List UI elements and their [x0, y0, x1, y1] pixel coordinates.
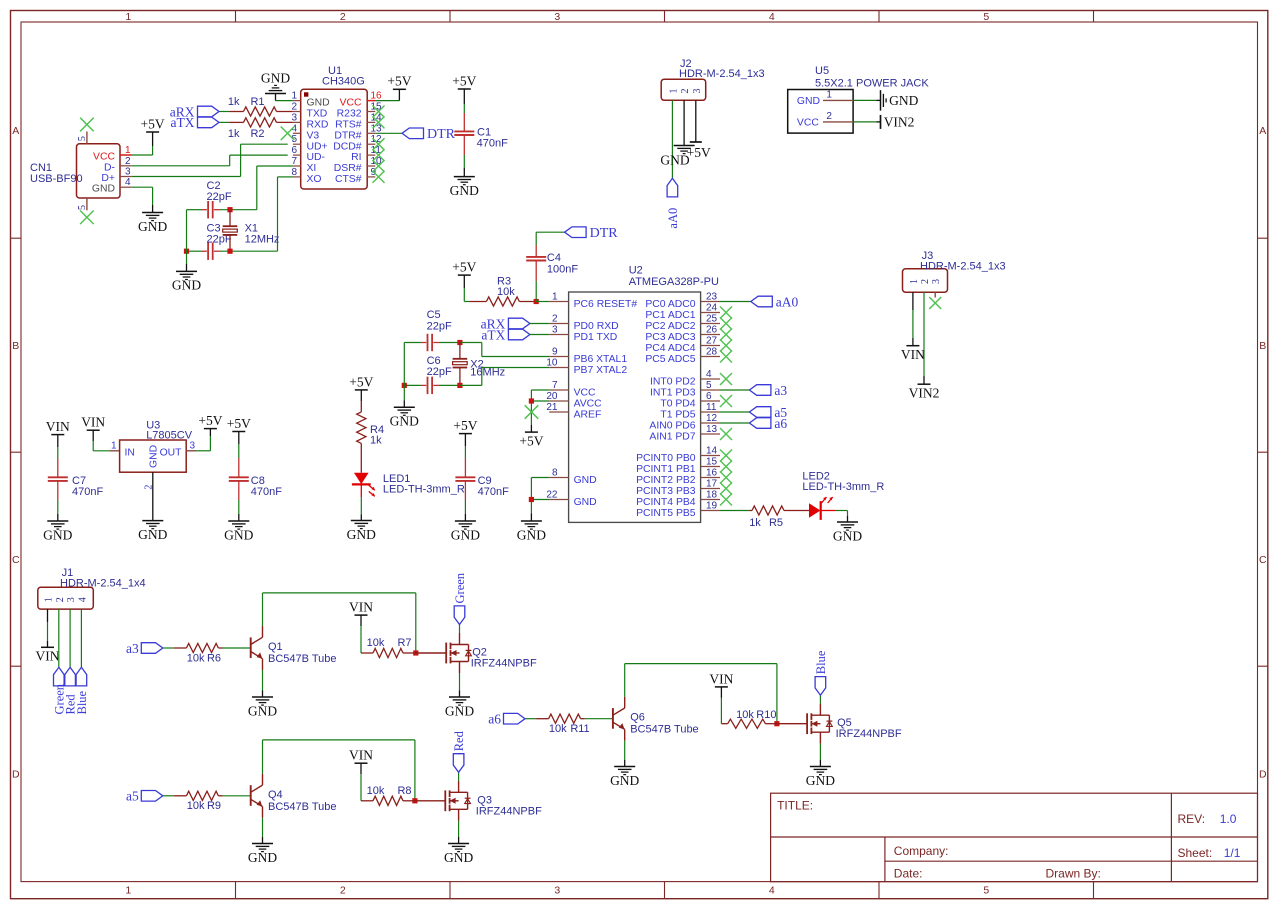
svg-text:PD1 TXD: PD1 TXD	[574, 332, 618, 343]
svg-text:PCINT0 PB0: PCINT0 PB0	[636, 453, 696, 464]
svg-text:23: 23	[706, 292, 718, 303]
svg-text:4: 4	[125, 177, 131, 188]
svg-text:GND: GND	[574, 497, 597, 508]
svg-text:C: C	[12, 554, 20, 566]
svg-text:Blue: Blue	[75, 690, 89, 714]
svg-text:R8: R8	[397, 785, 411, 797]
svg-text:470nF: 470nF	[477, 138, 508, 150]
svg-text:7: 7	[291, 156, 297, 167]
svg-text:GND: GND	[517, 527, 546, 542]
svg-text:D+: D+	[101, 173, 115, 184]
svg-text:5: 5	[706, 380, 712, 391]
svg-text:VIN: VIN	[349, 748, 373, 763]
svg-text:VIN: VIN	[709, 671, 733, 686]
svg-text:+5V: +5V	[198, 413, 222, 428]
svg-text:26: 26	[706, 325, 718, 336]
svg-text:GND: GND	[444, 850, 473, 865]
svg-text:ATMEGA328P-PU: ATMEGA328P-PU	[629, 276, 719, 288]
svg-text:GND: GND	[451, 527, 480, 542]
svg-text:15: 15	[371, 102, 383, 113]
svg-text:Green: Green	[453, 572, 467, 603]
svg-text:IRFZ44NPBF: IRFZ44NPBF	[471, 658, 537, 670]
svg-text:VIN2: VIN2	[884, 114, 915, 129]
svg-text:a5: a5	[126, 789, 139, 804]
svg-text:PC6 RESET#: PC6 RESET#	[574, 299, 638, 310]
svg-text:4: 4	[77, 597, 88, 602]
svg-text:IN: IN	[125, 447, 135, 458]
svg-text:AREF: AREF	[574, 410, 602, 421]
svg-text:Red: Red	[452, 730, 466, 751]
svg-text:XO: XO	[307, 174, 322, 185]
svg-text:1: 1	[44, 597, 55, 602]
svg-text:10k: 10k	[367, 637, 385, 649]
svg-text:R7: R7	[397, 637, 411, 649]
svg-text:GND: GND	[149, 445, 160, 468]
svg-text:GND: GND	[224, 527, 253, 542]
svg-text:2: 2	[920, 279, 931, 284]
svg-text:AIN1 PD7: AIN1 PD7	[649, 432, 695, 443]
svg-text:10k: 10k	[187, 652, 205, 664]
svg-text:VCC: VCC	[340, 98, 362, 109]
svg-text:PC0 ADC0: PC0 ADC0	[645, 299, 695, 310]
svg-text:Blue: Blue	[814, 650, 828, 674]
svg-text:R9: R9	[207, 800, 221, 812]
svg-text:VCC: VCC	[797, 117, 819, 128]
svg-text:VIN: VIN	[349, 600, 373, 615]
svg-text:5.5X2.1 POWER JACK: 5.5X2.1 POWER JACK	[815, 77, 929, 89]
svg-text:GND: GND	[889, 93, 918, 108]
svg-text:U2: U2	[629, 265, 643, 277]
svg-text:3: 3	[125, 167, 131, 178]
svg-text:18: 18	[706, 490, 718, 501]
svg-text:+5V: +5V	[349, 374, 373, 389]
svg-text:+5V: +5V	[141, 116, 165, 131]
svg-text:aA0: aA0	[666, 208, 680, 229]
svg-text:aTX: aTX	[481, 327, 505, 342]
svg-text:25: 25	[706, 314, 718, 325]
svg-text:2: 2	[552, 314, 558, 325]
svg-text:UD-: UD-	[307, 152, 325, 163]
svg-text:5: 5	[77, 205, 88, 210]
svg-text:HDR-M-2.54_1x4: HDR-M-2.54_1x4	[60, 578, 146, 590]
svg-text:4: 4	[706, 369, 712, 380]
svg-text:HDR-M-2.54_1x3: HDR-M-2.54_1x3	[679, 68, 765, 80]
svg-text:10k: 10k	[736, 709, 754, 721]
svg-text:PB6 XTAL1: PB6 XTAL1	[574, 354, 628, 365]
svg-text:+5V: +5V	[452, 73, 476, 88]
svg-text:15: 15	[706, 457, 718, 468]
svg-text:Drawn By:: Drawn By:	[1046, 867, 1101, 881]
svg-text:C4: C4	[547, 252, 561, 264]
svg-text:PCINT2 PB2: PCINT2 PB2	[636, 475, 696, 486]
svg-text:IRFZ44NPBF: IRFZ44NPBF	[836, 728, 902, 740]
svg-text:12MHz: 12MHz	[245, 234, 280, 246]
svg-text:C: C	[1259, 554, 1267, 566]
svg-text:12: 12	[371, 134, 383, 145]
svg-text:4: 4	[769, 11, 775, 23]
svg-text:RXD: RXD	[307, 120, 329, 131]
svg-text:L7805CV: L7805CV	[146, 429, 193, 441]
svg-text:1: 1	[111, 440, 117, 451]
svg-text:2: 2	[125, 156, 131, 167]
svg-text:XI: XI	[307, 163, 317, 174]
svg-text:Sheet:: Sheet:	[1178, 846, 1213, 860]
svg-text:VIN2: VIN2	[909, 385, 940, 400]
svg-text:PCINT5 PB5: PCINT5 PB5	[636, 508, 696, 519]
svg-text:a6: a6	[774, 416, 787, 431]
svg-text:6: 6	[706, 391, 712, 402]
svg-text:5: 5	[983, 885, 989, 897]
svg-text:PC2 ADC2: PC2 ADC2	[645, 321, 695, 332]
svg-text:GND: GND	[833, 528, 862, 543]
svg-text:14: 14	[706, 446, 718, 457]
svg-text:3: 3	[66, 597, 77, 602]
svg-text:16: 16	[706, 468, 718, 479]
svg-text:1/1: 1/1	[1224, 846, 1241, 860]
svg-text:REV:: REV:	[1178, 812, 1206, 826]
svg-text:a3: a3	[126, 641, 139, 656]
svg-text:T1 PD5: T1 PD5	[660, 410, 695, 421]
svg-text:BC547B Tube: BC547B Tube	[630, 724, 699, 736]
svg-text:1: 1	[291, 91, 297, 102]
svg-text:TXD: TXD	[307, 109, 328, 120]
svg-text:GND: GND	[138, 527, 167, 542]
svg-text:2: 2	[826, 111, 832, 122]
svg-text:GND: GND	[248, 850, 277, 865]
svg-text:GND: GND	[390, 414, 419, 429]
svg-text:5: 5	[77, 136, 88, 141]
svg-text:R11: R11	[570, 723, 589, 735]
svg-text:1: 1	[125, 885, 131, 897]
svg-text:PC5 ADC5: PC5 ADC5	[645, 354, 695, 365]
svg-text:GND: GND	[660, 153, 689, 168]
svg-text:10k: 10k	[497, 286, 515, 298]
svg-text:HDR-M-2.54_1x3: HDR-M-2.54_1x3	[920, 261, 1006, 273]
svg-text:C5: C5	[427, 309, 441, 321]
svg-text:22: 22	[546, 490, 558, 501]
svg-text:6: 6	[291, 145, 297, 156]
svg-text:PC4 ADC4: PC4 ADC4	[645, 343, 695, 354]
svg-text:VIN: VIN	[46, 419, 70, 434]
svg-text:Company:: Company:	[894, 844, 949, 858]
svg-text:GND: GND	[43, 527, 72, 542]
svg-text:aTX: aTX	[171, 115, 195, 130]
svg-text:12: 12	[706, 413, 718, 424]
svg-text:PC3 ADC3: PC3 ADC3	[645, 332, 695, 343]
svg-text:a3: a3	[774, 383, 787, 398]
svg-text:+5V: +5V	[687, 145, 711, 160]
svg-text:DTR#: DTR#	[334, 130, 361, 141]
svg-text:D-: D-	[104, 162, 115, 173]
svg-text:16MHz: 16MHz	[470, 367, 505, 379]
svg-text:PCINT1 PB1: PCINT1 PB1	[636, 464, 696, 475]
svg-text:R10: R10	[756, 709, 776, 721]
svg-text:V3: V3	[307, 130, 320, 141]
svg-text:A: A	[1259, 125, 1266, 137]
svg-text:10k: 10k	[549, 723, 567, 735]
svg-text:2: 2	[340, 885, 346, 897]
svg-text:1k: 1k	[228, 96, 240, 108]
svg-text:AVCC: AVCC	[574, 399, 603, 410]
svg-text:28: 28	[706, 347, 718, 358]
svg-text:10: 10	[546, 358, 558, 369]
svg-text:GND: GND	[610, 773, 639, 788]
svg-text:2: 2	[680, 89, 691, 94]
svg-text:21: 21	[546, 402, 558, 413]
svg-text:GND: GND	[138, 219, 167, 234]
svg-text:GND: GND	[92, 184, 115, 195]
svg-text:3: 3	[931, 279, 942, 284]
svg-text:LED-TH-3mm_R: LED-TH-3mm_R	[802, 481, 884, 493]
svg-text:470nF: 470nF	[478, 486, 509, 498]
svg-text:GND: GND	[445, 703, 474, 718]
svg-text:BC547B Tube: BC547B Tube	[268, 653, 337, 665]
svg-text:R2: R2	[250, 128, 264, 140]
svg-text:CTS#: CTS#	[335, 174, 362, 185]
svg-text:22pF: 22pF	[427, 366, 452, 378]
svg-text:1: 1	[668, 89, 679, 94]
svg-text:PB7 XTAL2: PB7 XTAL2	[574, 365, 628, 376]
svg-text:GND: GND	[806, 773, 835, 788]
svg-text:aA0: aA0	[776, 294, 799, 309]
svg-text:RI: RI	[351, 152, 361, 163]
svg-text:GND: GND	[797, 96, 820, 107]
svg-text:PD0 RXD: PD0 RXD	[574, 321, 619, 332]
svg-text:3: 3	[190, 440, 196, 451]
svg-text:VIN: VIN	[901, 347, 925, 362]
svg-text:1: 1	[826, 90, 832, 101]
svg-text:22pF: 22pF	[427, 321, 452, 333]
svg-text:A: A	[12, 125, 19, 137]
svg-text:1.0: 1.0	[1220, 812, 1237, 826]
svg-text:11: 11	[706, 402, 717, 413]
svg-text:R232: R232	[337, 109, 362, 120]
svg-text:+5V: +5V	[227, 416, 251, 431]
svg-text:GND: GND	[574, 475, 597, 486]
svg-text:PC1 ADC1: PC1 ADC1	[645, 310, 695, 321]
svg-text:4: 4	[769, 885, 775, 897]
svg-text:B: B	[1259, 340, 1266, 352]
svg-text:Q6: Q6	[630, 712, 645, 724]
svg-text:Date:: Date:	[894, 867, 923, 881]
svg-text:T0 PD4: T0 PD4	[660, 399, 695, 410]
svg-text:INT0 PD2: INT0 PD2	[650, 377, 696, 388]
svg-text:D: D	[12, 769, 20, 781]
svg-text:2: 2	[55, 597, 66, 602]
svg-text:1k: 1k	[370, 434, 382, 446]
svg-text:1: 1	[909, 279, 920, 284]
svg-text:DSR#: DSR#	[334, 163, 362, 174]
svg-text:AIN0 PD6: AIN0 PD6	[649, 421, 695, 432]
svg-text:2: 2	[144, 485, 155, 490]
svg-text:U5: U5	[815, 65, 829, 77]
svg-text:Q4: Q4	[268, 789, 283, 801]
svg-text:20: 20	[546, 391, 558, 402]
svg-text:13: 13	[706, 424, 718, 435]
svg-text:GND: GND	[172, 278, 201, 293]
svg-text:a6: a6	[488, 712, 501, 727]
svg-text:1k: 1k	[749, 517, 761, 529]
svg-text:LED-TH-3mm_R: LED-TH-3mm_R	[383, 483, 465, 495]
svg-text:1: 1	[125, 11, 131, 23]
svg-text:VCC: VCC	[574, 388, 596, 399]
svg-text:+5V: +5V	[519, 433, 543, 448]
svg-text:R5: R5	[769, 517, 783, 529]
svg-text:Q1: Q1	[268, 641, 283, 653]
svg-text:100nF: 100nF	[547, 264, 578, 276]
svg-text:USB-BF90: USB-BF90	[30, 173, 83, 185]
svg-text:8: 8	[291, 167, 297, 178]
svg-text:+5V: +5V	[452, 260, 476, 275]
svg-text:7: 7	[552, 380, 558, 391]
svg-text:GND: GND	[347, 527, 376, 542]
svg-text:10k: 10k	[187, 800, 205, 812]
svg-text:RTS#: RTS#	[335, 120, 362, 131]
svg-text:8: 8	[552, 468, 558, 479]
svg-text:OUT: OUT	[160, 447, 183, 458]
svg-text:DTR: DTR	[427, 127, 456, 142]
svg-text:BC547B Tube: BC547B Tube	[268, 801, 337, 813]
svg-text:3: 3	[554, 885, 560, 897]
svg-text:9: 9	[552, 347, 558, 358]
svg-text:VIN: VIN	[81, 415, 105, 430]
svg-text:3: 3	[692, 89, 703, 94]
svg-text:17: 17	[706, 479, 718, 490]
svg-text:1: 1	[552, 292, 558, 303]
svg-text:+5V: +5V	[453, 418, 477, 433]
svg-text:R1: R1	[250, 96, 264, 108]
svg-text:24: 24	[706, 303, 718, 314]
svg-text:PCINT3 PB3: PCINT3 PB3	[636, 486, 696, 497]
svg-text:D: D	[1259, 769, 1267, 781]
svg-text:GND: GND	[307, 98, 330, 109]
svg-text:B: B	[12, 340, 19, 352]
svg-text:DTR: DTR	[590, 226, 619, 241]
svg-text:DCD#: DCD#	[333, 141, 362, 152]
svg-text:10k: 10k	[367, 785, 385, 797]
svg-text:R6: R6	[207, 652, 221, 664]
svg-text:UD+: UD+	[307, 141, 328, 152]
svg-text:VIN: VIN	[36, 649, 60, 664]
svg-text:1k: 1k	[228, 128, 240, 140]
svg-text:GND: GND	[261, 71, 290, 86]
svg-text:3: 3	[554, 11, 560, 23]
svg-text:GND: GND	[450, 183, 479, 198]
svg-text:CH340G: CH340G	[322, 75, 365, 87]
svg-text:GND: GND	[248, 703, 277, 718]
svg-text:3: 3	[552, 325, 558, 336]
svg-text:470nF: 470nF	[72, 486, 103, 498]
svg-text:5: 5	[983, 11, 989, 23]
svg-text:VCC: VCC	[93, 152, 115, 163]
svg-text:470nF: 470nF	[251, 486, 282, 498]
svg-text:IRFZ44NPBF: IRFZ44NPBF	[476, 805, 542, 817]
svg-text:27: 27	[706, 336, 718, 347]
svg-text:TITLE:: TITLE:	[777, 798, 813, 812]
svg-text:22pF: 22pF	[207, 191, 232, 203]
svg-text:INT1 PD3: INT1 PD3	[650, 388, 696, 399]
svg-text:19: 19	[706, 501, 718, 512]
svg-text:+5V: +5V	[387, 74, 411, 89]
svg-text:PCINT4 PB4: PCINT4 PB4	[636, 497, 696, 508]
svg-text:2: 2	[340, 11, 346, 23]
